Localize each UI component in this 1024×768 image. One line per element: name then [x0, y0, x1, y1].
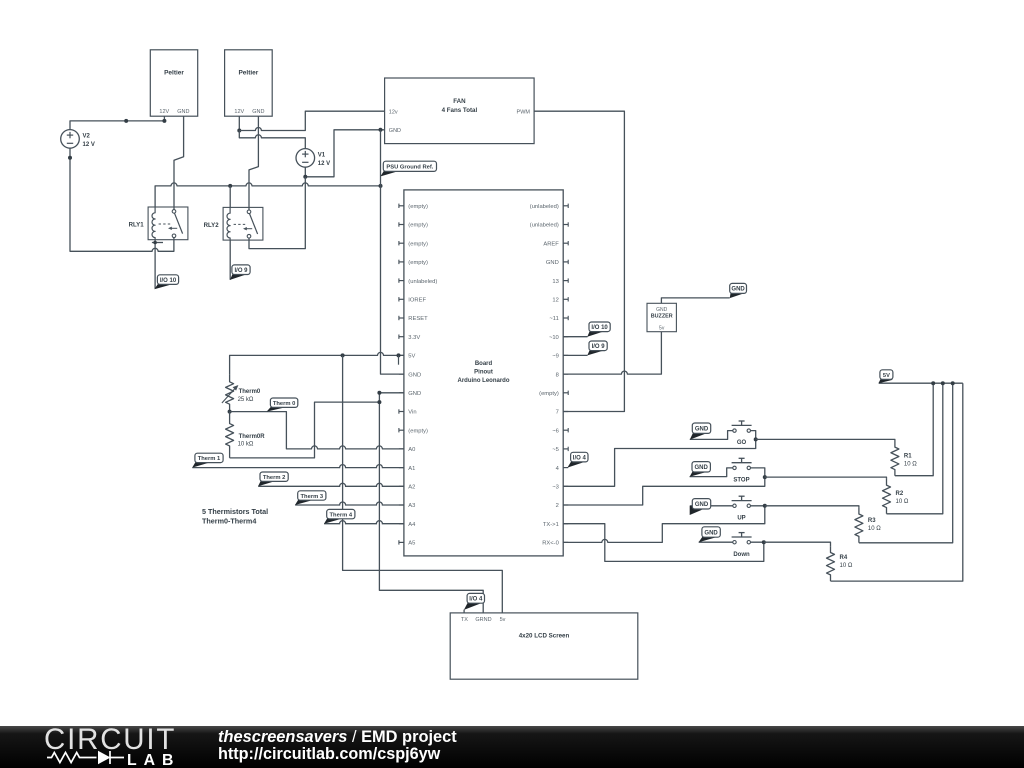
CircuitLab logo: [44, 723, 180, 768]
wire board RX-0 to UP button: [563, 504, 767, 543]
pushbutton STOP: [732, 458, 752, 483]
svg-text:10 Ω: 10 Ω: [840, 563, 853, 569]
svg-text:12V: 12V: [234, 109, 244, 115]
svg-text:2: 2: [556, 503, 559, 509]
wire 12V junction to V1+: [239, 131, 305, 149]
flag I/O 10 (board): [587, 322, 610, 337]
board pin row (empty) / ~6: [399, 428, 568, 434]
svg-text:STOP: STOP: [733, 478, 749, 484]
svg-text:GO: GO: [737, 440, 747, 446]
svg-text:GND: GND: [695, 502, 709, 508]
wire board pin ~10 to I/O 10 flag: [563, 336, 587, 338]
board pin row A3 / 2: [399, 503, 568, 509]
svg-text:I/O 10: I/O 10: [591, 325, 608, 331]
svg-text:3.3V: 3.3V: [408, 335, 420, 341]
board pin row A0 / ~5: [399, 447, 568, 453]
svg-text:PWM: PWM: [517, 110, 531, 116]
svg-text:(empty): (empty): [408, 428, 428, 434]
flag Therm 3: [295, 491, 326, 505]
svg-text:12 V: 12 V: [83, 142, 95, 148]
wire board pin ~9 to I/O 9 flag: [563, 354, 587, 356]
svg-text:R3: R3: [868, 518, 876, 524]
wire RLY1 coil bottom to I/O 10 flag: [152, 240, 163, 289]
wire Therm 3 to A3: [295, 502, 404, 505]
board pin row GND / (empty): [399, 391, 568, 397]
board pin row Vin / 7: [399, 409, 568, 415]
svg-text:FAN: FAN: [453, 98, 466, 105]
svg-text:10 Ω: 10 Ω: [868, 526, 881, 532]
wire V2+ to Peltier1 12V pin: [70, 116, 166, 130]
wire GO to board pin ~3: [563, 431, 758, 487]
voltage source V2 12V: [61, 130, 95, 149]
footer bar: [0, 726, 1024, 768]
svg-text:I/O 4: I/O 4: [469, 597, 483, 603]
wire Therm 4 to A4: [324, 521, 404, 524]
svg-text:R2: R2: [896, 491, 904, 497]
flag GND (GO): [690, 423, 711, 440]
buzzer: [647, 303, 676, 331]
flag I/O 9 (RLY2): [230, 265, 250, 280]
svg-text:A1: A1: [408, 466, 415, 472]
svg-text:Therm 0: Therm 0: [273, 401, 296, 407]
pushbutton GO: [732, 421, 752, 446]
svg-text:AREF: AREF: [543, 241, 559, 247]
svg-text:TX: TX: [461, 617, 468, 623]
svg-text:Vin: Vin: [408, 410, 416, 416]
svg-text:GND: GND: [695, 465, 709, 471]
pushbutton Down: [732, 533, 752, 558]
flag GND (Down): [699, 527, 721, 543]
flag Therm 4: [324, 509, 355, 523]
svg-text:(empty): (empty): [408, 204, 428, 210]
thermistor Therm0 25k: [222, 374, 261, 411]
svg-text:Therm0-Therm4: Therm0-Therm4: [202, 517, 256, 526]
flag Therm 1: [192, 453, 223, 467]
svg-text:RESET: RESET: [408, 316, 428, 322]
svg-text:V2: V2: [83, 134, 91, 140]
resistor R1 10 ohm: [756, 383, 934, 476]
svg-text:GND: GND: [408, 391, 421, 397]
wire GND flag to Down: [699, 541, 733, 543]
svg-text:5V: 5V: [408, 354, 415, 360]
svg-text:RLY1: RLY1: [129, 222, 145, 229]
wire 12V junction to FAN 12v: [239, 111, 384, 130]
svg-text:~10: ~10: [549, 335, 559, 341]
svg-text:Peltier: Peltier: [164, 70, 184, 77]
wire LCD TX stub: [463, 610, 465, 613]
relay RLY2: [204, 207, 263, 240]
svg-text:GND: GND: [656, 307, 668, 313]
svg-text:RLY2: RLY2: [204, 222, 220, 229]
svg-text:Therm 3: Therm 3: [301, 494, 324, 500]
svg-text:5 Thermistors Total: 5 Thermistors Total: [202, 507, 268, 516]
board pin row 3.3V / ~10: [399, 335, 568, 341]
svg-text:(empty): (empty): [539, 391, 559, 397]
svg-text:(empty): (empty): [408, 241, 428, 247]
svg-text:A0: A0: [408, 447, 415, 453]
svg-text:~11: ~11: [549, 316, 558, 322]
svg-text:4x20 LCD Screen: 4x20 LCD Screen: [519, 633, 570, 640]
svg-text:RX<-0: RX<-0: [542, 541, 559, 547]
svg-text:~9: ~9: [552, 354, 559, 360]
svg-text:12 V: 12 V: [318, 161, 330, 167]
board pin row GND / 8: [399, 372, 568, 378]
PSU ground vertical wire to board GND: [381, 130, 404, 374]
svg-text:10 Ω: 10 Ω: [904, 461, 917, 467]
wire RLY2 coil bottom to I/O 9 flag: [229, 240, 231, 280]
svg-text:Arduino Leonardo: Arduino Leonardo: [458, 378, 510, 384]
flag I/O 10 (RLY1): [154, 275, 178, 289]
svg-text:A5: A5: [408, 541, 415, 547]
board pin row (unlabeled) / 13: [399, 278, 568, 284]
svg-text:8: 8: [556, 372, 559, 378]
wire Therm0R bottom to board GND: [230, 402, 380, 458]
flag 5V: [879, 370, 893, 384]
board pin row (empty) / AREF: [399, 241, 568, 247]
wire 5V junction down to LCD 5v: [343, 355, 503, 613]
flag Therm 2: [258, 472, 288, 486]
flag I/O 9 (board): [587, 341, 607, 355]
svg-text:12v: 12v: [389, 110, 398, 116]
svg-text:10 kΩ: 10 kΩ: [238, 442, 254, 448]
wire Therm 1 to A1: [192, 465, 404, 468]
flag I/O 4 (board pin 4): [567, 452, 588, 467]
op board Arduino Leonardo pinout: [404, 190, 563, 556]
wire Therm0 node to A0: [230, 412, 404, 449]
wire GND flag to UP: [690, 505, 733, 507]
board pin row IOREF / 12: [399, 297, 568, 303]
svg-text:I/O 10: I/O 10: [160, 278, 177, 284]
svg-text:R4: R4: [840, 555, 848, 561]
svg-text:TX->1: TX->1: [543, 522, 559, 528]
5V supply rail: [879, 381, 963, 385]
svg-text:GND: GND: [704, 530, 718, 536]
FAN box (4 Fans Total): [385, 78, 534, 144]
LCD 4x20 screen: [450, 613, 638, 679]
svg-text:Therm0: Therm0: [239, 389, 261, 395]
junction Therm0/Therm0R node: [228, 410, 232, 414]
board pin row 5V / ~9: [399, 354, 568, 360]
svg-text:13: 13: [552, 279, 558, 285]
relay RLY1: [129, 207, 188, 240]
svg-text:R1: R1: [904, 453, 912, 459]
wire Therm 2 to A2: [258, 483, 404, 486]
wire buzzer GND to flag: [661, 298, 729, 303]
svg-text:UP: UP: [737, 515, 745, 521]
wire FAN PWM to board pin 7: [534, 111, 624, 411]
wire 5V rail from board to thermistors: [230, 352, 404, 374]
wire Peltier1 GND to RLY1 common: [174, 116, 184, 209]
wire RLY2 coil top to GND bus: [229, 186, 231, 208]
svg-text:GRND: GRND: [475, 617, 491, 623]
svg-text:I/O 9: I/O 9: [234, 268, 248, 274]
wire board pin 8 to buzzer 5v: [563, 332, 661, 374]
flag I/O 4 (LCD TX): [464, 593, 485, 610]
flag GND (buzzer): [730, 283, 747, 298]
svg-text:5V: 5V: [883, 373, 890, 379]
svg-text:A3: A3: [408, 503, 415, 509]
flag GND (STOP): [690, 462, 711, 477]
wire board GND 2 to LCD GRND: [377, 391, 483, 613]
svg-text:Pinout: Pinout: [474, 369, 493, 375]
svg-text:10 Ω: 10 Ω: [896, 499, 909, 505]
svg-text:GND: GND: [546, 260, 559, 266]
voltage source V1 12V: [296, 149, 330, 168]
svg-text:(empty): (empty): [408, 223, 428, 229]
wire Peltier2 GND to RLY2 common: [249, 116, 258, 210]
svg-text:~5: ~5: [552, 447, 559, 453]
board pin row A2 / ~3: [399, 485, 568, 491]
wire GND flag to GO: [690, 431, 733, 440]
svg-text:GND: GND: [408, 372, 421, 378]
svg-text:Board: Board: [475, 361, 493, 367]
svg-text:7: 7: [556, 410, 559, 416]
svg-text:(unlabeled): (unlabeled): [408, 279, 437, 285]
flag Therm 0: [267, 398, 298, 412]
wire Peltier2 12V down to junction: [237, 116, 241, 132]
svg-text:~3: ~3: [552, 485, 559, 491]
svg-text:GND: GND: [731, 287, 745, 293]
svg-text:PSU Ground Ref.: PSU Ground Ref.: [386, 165, 433, 171]
svg-text:25 kΩ: 25 kΩ: [238, 397, 254, 403]
svg-text:GND: GND: [389, 128, 401, 134]
svg-text:Therm0R: Therm0R: [239, 434, 266, 440]
svg-text:(unlabeled): (unlabeled): [530, 204, 559, 210]
wire V2- to RLY1 NO contact: [68, 148, 174, 251]
wire V1- / FAN GND: [303, 128, 384, 179]
svg-text:~6: ~6: [552, 428, 559, 434]
svg-text:http://circuitlab.com/cspj6yw: http://circuitlab.com/cspj6yw: [218, 745, 441, 763]
svg-text:V1: V1: [318, 153, 326, 159]
flag PSU Ground Ref.: [380, 161, 436, 176]
svg-text:BUZZER: BUZZER: [651, 314, 673, 320]
GND bus wire (RLY coils / PSU ground): [155, 183, 382, 207]
svg-text:A2: A2: [408, 485, 415, 491]
board pin row A4 / TX->1: [399, 522, 568, 528]
resistor R3 10 ohm: [765, 383, 953, 543]
board pin row (empty) / GND: [399, 260, 568, 266]
svg-text:(empty): (empty): [408, 260, 428, 266]
svg-text:Peltier: Peltier: [238, 70, 258, 77]
board pin row RESET / ~11: [399, 316, 568, 322]
board pin row (empty) / (unlabeled): [399, 222, 568, 228]
svg-text:GND: GND: [695, 427, 709, 433]
svg-text:Down: Down: [733, 552, 750, 558]
pushbutton UP: [732, 496, 752, 521]
svg-text:GND: GND: [177, 109, 189, 115]
svg-text:thescreensavers / EMD project: thescreensavers / EMD project: [218, 728, 457, 746]
svg-text:I/O 9: I/O 9: [592, 344, 606, 350]
svg-text:5v: 5v: [659, 325, 665, 331]
wire board TX-1 to Down button: [563, 524, 766, 562]
board pin row A1 / 4: [399, 466, 568, 472]
svg-text:4 Fans Total: 4 Fans Total: [442, 107, 478, 114]
svg-text:Therm 2: Therm 2: [263, 475, 286, 481]
Peltier module 2: [225, 50, 273, 116]
svg-text:Therm 1: Therm 1: [198, 456, 221, 462]
svg-text:A4: A4: [408, 522, 416, 528]
resistor R2 10 ohm: [765, 383, 943, 514]
wire V1- to RLY2 NO contact: [249, 177, 305, 249]
resistor R4 10 ohm: [764, 383, 963, 581]
svg-text:I/O 4: I/O 4: [573, 455, 587, 461]
svg-text:(unlabeled): (unlabeled): [530, 223, 559, 229]
svg-text:GND: GND: [252, 109, 264, 115]
svg-text:12V: 12V: [159, 109, 169, 115]
flag GND (UP): [690, 499, 711, 515]
note 5 Thermistors Total: [202, 507, 268, 525]
svg-text:Therm 4: Therm 4: [330, 512, 353, 518]
board pin row (empty) / (unlabeled): [399, 204, 568, 210]
board pin row A5 / RX<-0: [399, 540, 568, 546]
svg-text:IOREF: IOREF: [408, 298, 426, 304]
footer title text: [218, 728, 457, 763]
Peltier module 1: [150, 50, 197, 116]
svg-text:12: 12: [552, 298, 558, 304]
resistor Therm0R 10k: [226, 412, 266, 458]
svg-text:5v: 5v: [500, 617, 506, 623]
svg-text:LAB: LAB: [127, 752, 180, 768]
wire GND flag to STOP: [690, 468, 733, 477]
wire STOP to board pin 2: [563, 468, 767, 505]
